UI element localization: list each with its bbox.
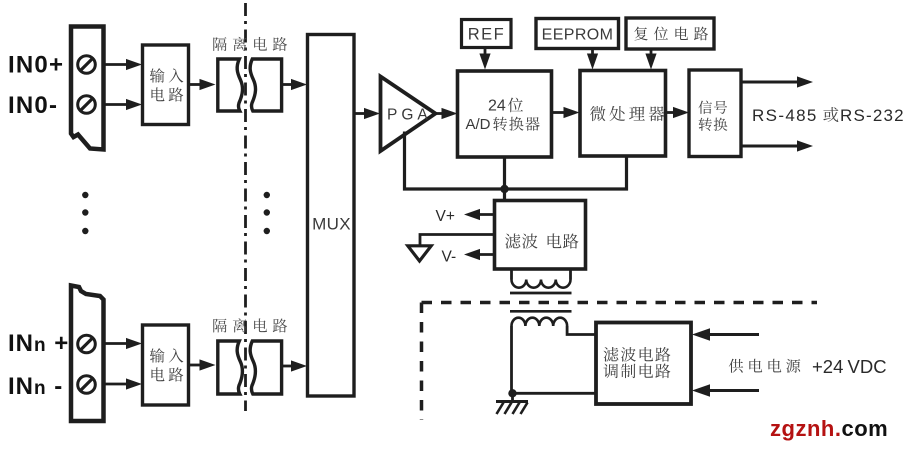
svg-text:RS-485: RS-485: [752, 106, 818, 125]
svg-text:V-: V-: [442, 249, 457, 266]
svg-text:com: com: [842, 416, 889, 441]
svg-text:IN0+: IN0+: [8, 52, 64, 79]
svg-text:EEPROM: EEPROM: [542, 27, 614, 44]
svg-text:RS-232: RS-232: [840, 106, 903, 125]
svg-text:INn -: INn -: [8, 373, 63, 400]
svg-text:MUX: MUX: [312, 215, 351, 234]
svg-text:V+: V+: [436, 208, 455, 225]
svg-text:PGA: PGA: [387, 107, 432, 124]
svg-text:24: 24: [488, 98, 506, 115]
svg-text:VDC: VDC: [848, 356, 887, 377]
svg-text:REF: REF: [468, 26, 506, 44]
svg-text:A/D: A/D: [466, 116, 491, 133]
svg-text:zgznh.: zgznh.: [770, 416, 841, 441]
svg-text:INn +: INn +: [8, 330, 69, 357]
svg-text:+24: +24: [812, 356, 843, 377]
svg-text:IN0-: IN0-: [8, 92, 58, 119]
